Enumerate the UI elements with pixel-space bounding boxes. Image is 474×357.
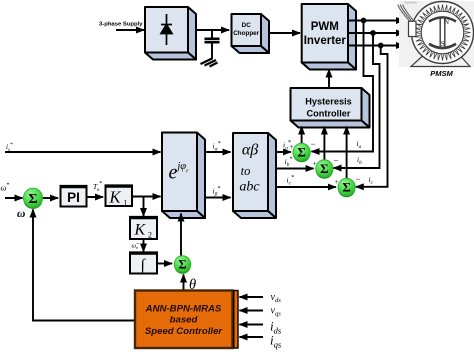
svg-text:abc: abc [239, 180, 260, 195]
svg-text:Hysteresis: Hysteresis [305, 97, 351, 107]
svg-text:ω: ω [17, 208, 25, 220]
svg-text:αβ: αβ [242, 142, 258, 159]
svg-text:Chopper: Chopper [233, 30, 259, 37]
svg-text:θ: θ [189, 277, 196, 293]
svg-text:K: K [109, 188, 122, 207]
svg-text:+: + [335, 178, 339, 186]
svg-text:Speed Controller: Speed Controller [145, 326, 224, 337]
svg-text:K: K [134, 222, 147, 239]
svg-text:based: based [170, 315, 199, 326]
svg-text:S: S [441, 40, 445, 48]
svg-text:PMSM: PMSM [430, 69, 453, 78]
svg-text:PI: PI [67, 190, 80, 205]
svg-text:to: to [241, 164, 251, 178]
svg-text:+: + [290, 143, 294, 151]
svg-text:−: − [334, 156, 339, 166]
svg-text:Σ: Σ [178, 258, 186, 272]
svg-text:3-phase: 3-phase [404, 0, 417, 4]
svg-text:PWM: PWM [311, 21, 339, 33]
svg-text:Σ: Σ [28, 192, 37, 207]
svg-text:3-phase Supply: 3-phase Supply [99, 22, 143, 28]
svg-text:−: − [311, 139, 316, 149]
svg-text:Inverter: Inverter [304, 35, 347, 47]
svg-text:Σ: Σ [297, 145, 306, 160]
svg-text:Σ: Σ [342, 180, 351, 195]
svg-text:N: N [444, 18, 450, 26]
svg-text:1: 1 [124, 199, 128, 208]
svg-text:Controller: Controller [307, 109, 351, 119]
svg-text:ANN-BPN-MRAS: ANN-BPN-MRAS [145, 304, 222, 315]
svg-text:+: + [313, 160, 317, 168]
svg-text:−: − [356, 174, 361, 184]
svg-text:Σ: Σ [320, 161, 329, 176]
svg-text:DC: DC [242, 22, 252, 29]
svg-text:2: 2 [148, 231, 152, 240]
